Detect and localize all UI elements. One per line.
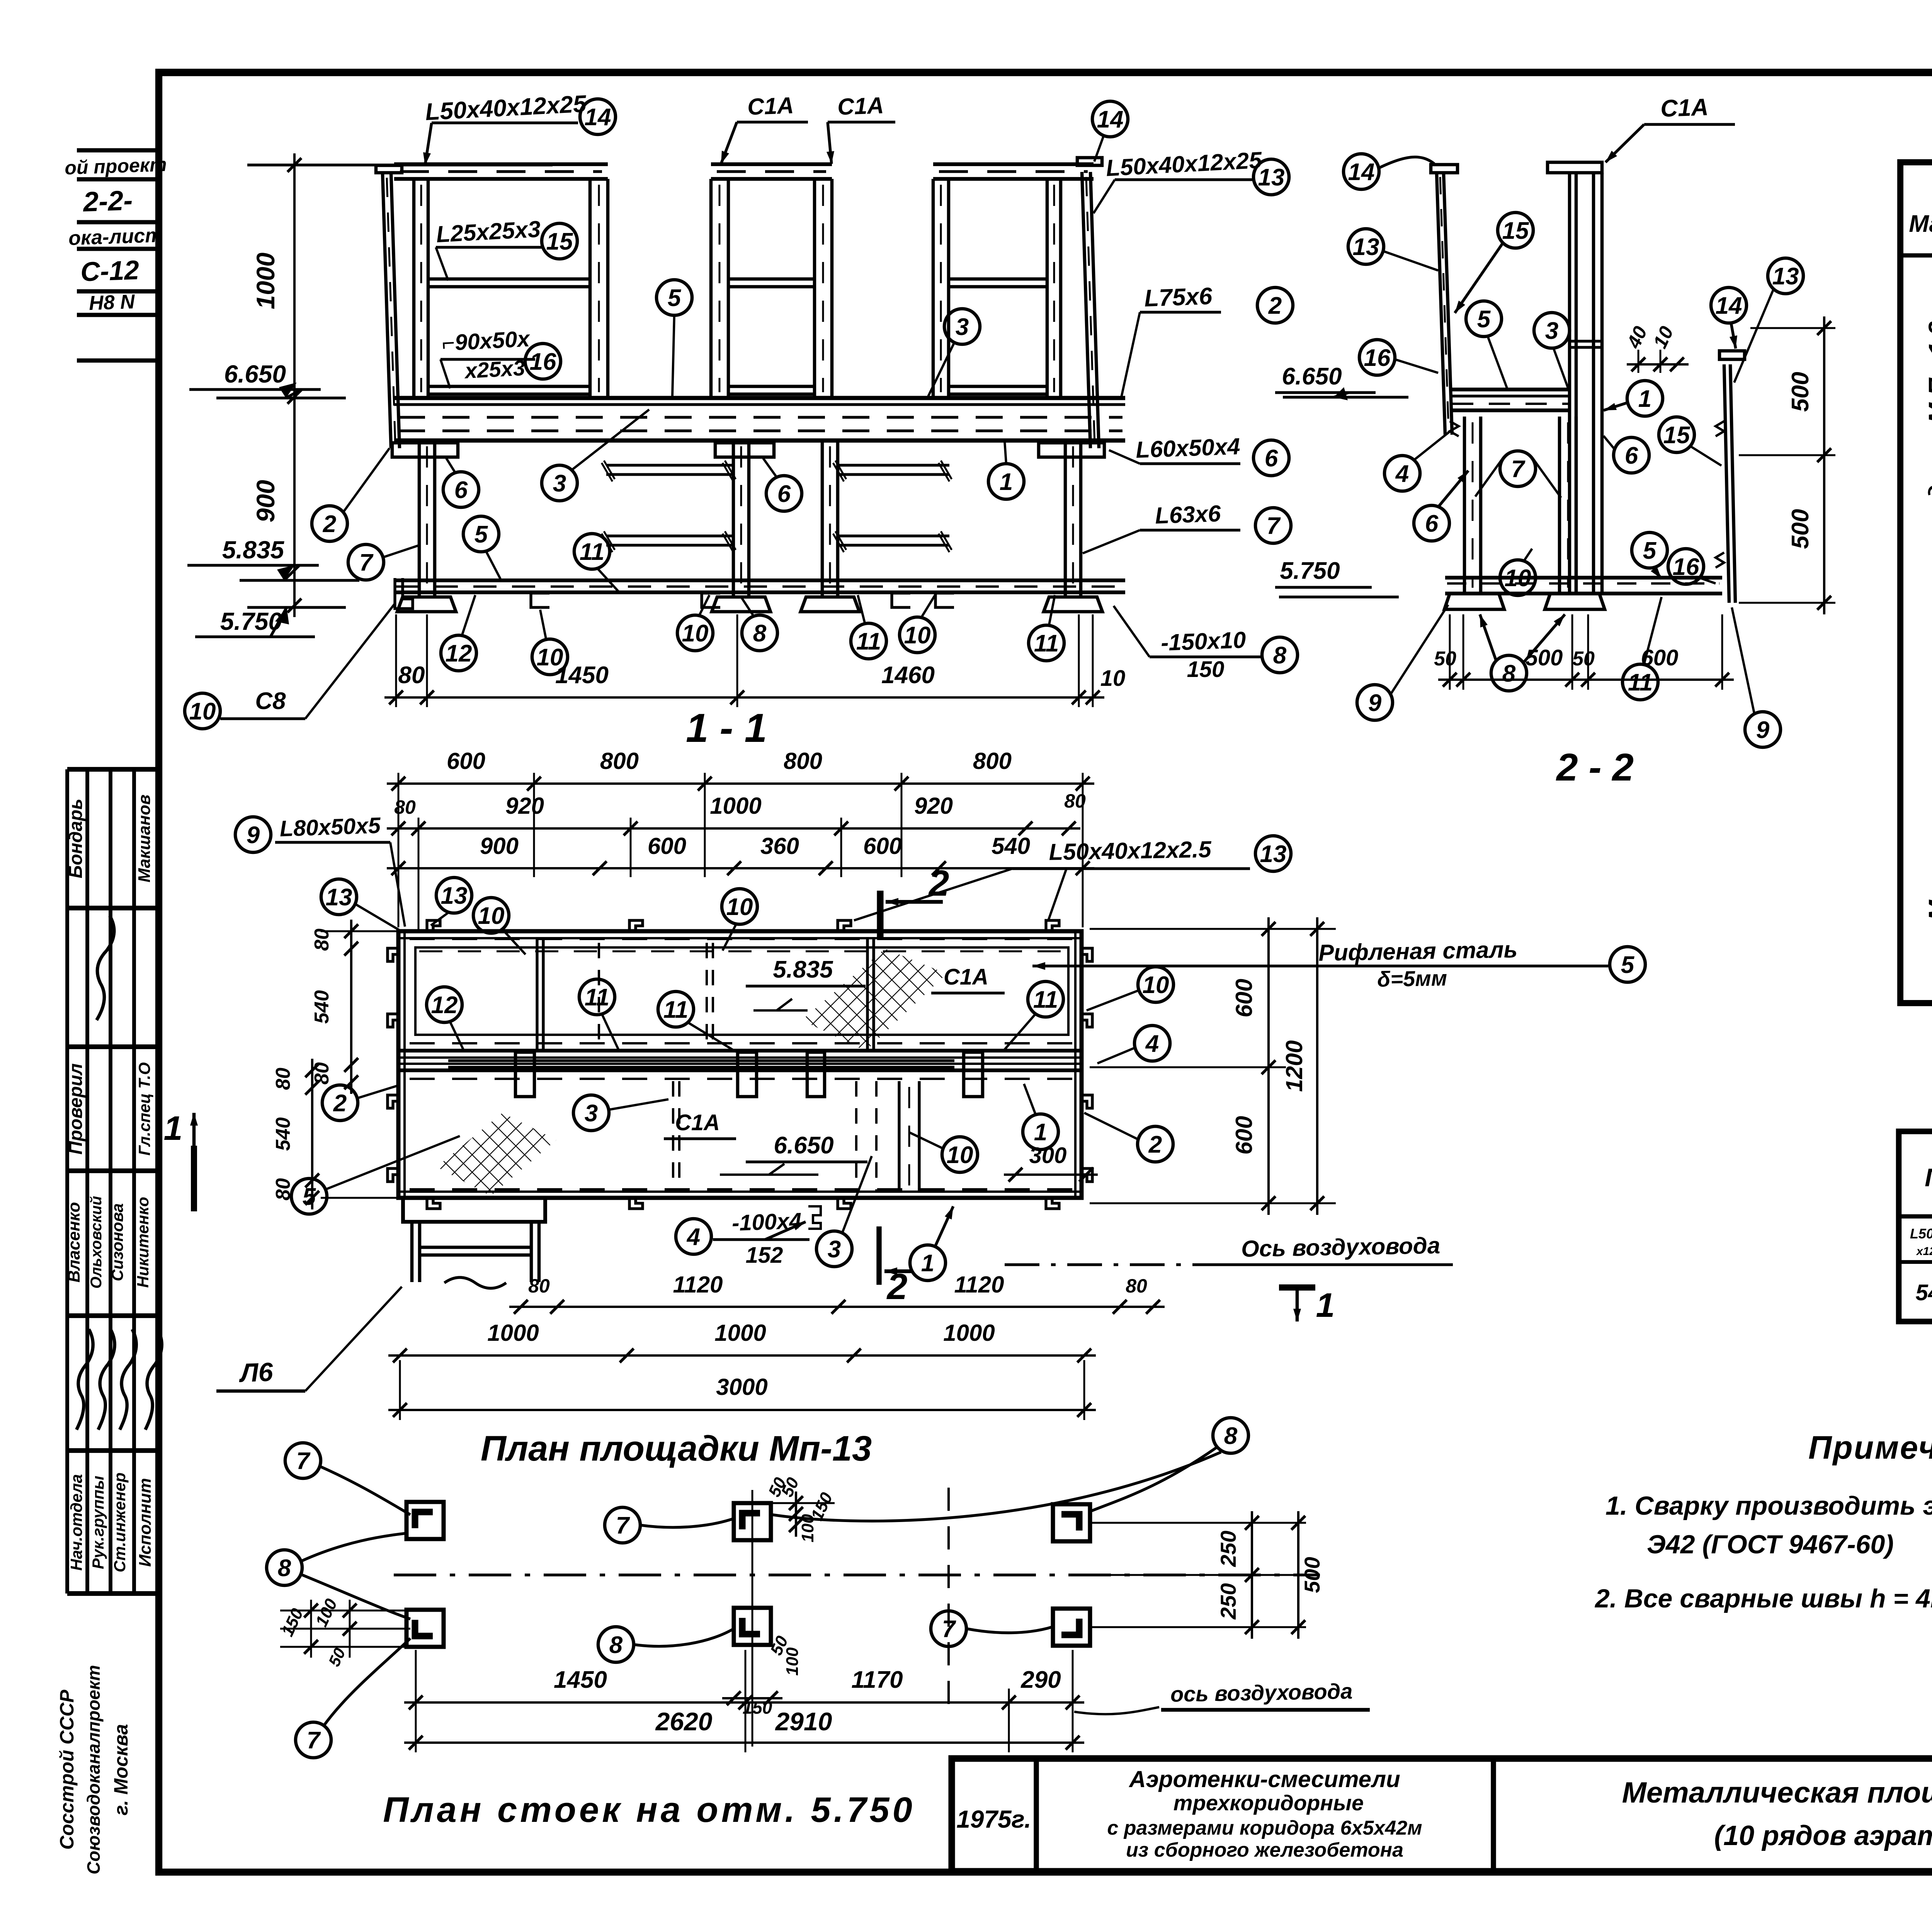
callout 6 mid (766, 476, 802, 511)
left margin signature stamp (65, 769, 69, 1594)
svg-text:3: 3 (553, 470, 566, 497)
svg-text:(10 рядов аэраторов): (10 рядов аэраторов) (1714, 1820, 1932, 1851)
svg-text:С1А: С1А (837, 92, 884, 120)
handrail post right (1046, 179, 1049, 398)
svg-text:540: 540 (992, 833, 1030, 859)
svg-text:290: 290 (1020, 1667, 1061, 1693)
svg-text:13: 13 (441, 883, 468, 909)
svg-text:3: 3 (1545, 318, 1558, 344)
tall angle 13 right (1724, 364, 1729, 603)
svg-text:1000: 1000 (710, 793, 761, 819)
svg-text:6: 6 (1425, 510, 1439, 537)
svg-text:5: 5 (1643, 537, 1657, 564)
callouts section 2-2 (1344, 154, 1379, 189)
svg-text:9: 9 (247, 822, 260, 849)
dashed plate lines (410, 1042, 1074, 1044)
callout 7 left (348, 544, 384, 580)
svg-text:50: 50 (1572, 648, 1595, 670)
svg-text:6: 6 (1265, 445, 1278, 472)
svg-text:L75х6: L75х6 (1144, 283, 1213, 312)
lower rail (428, 385, 590, 388)
svg-text:54.0: 54.0 (1916, 1280, 1932, 1305)
svg-text:80: 80 (398, 662, 425, 689)
svg-text:2 - 2: 2 - 2 (1556, 746, 1634, 789)
svg-text:Бондарь: Бондарь (66, 799, 86, 878)
svg-text:540: 540 (311, 990, 333, 1024)
svg-text:800: 800 (784, 748, 822, 774)
svg-text:С8: С8 (255, 688, 286, 714)
plan inner callouts (427, 987, 462, 1022)
svg-text:12: 12 (431, 992, 458, 1019)
svg-text:4: 4 (1395, 461, 1409, 487)
svg-text:1000: 1000 (714, 1320, 766, 1346)
svg-text:15: 15 (1663, 422, 1690, 449)
svg-text:900: 900 (251, 480, 280, 522)
svg-text:L50х40х12х2.5: L50х40х12х2.5 (1049, 836, 1212, 865)
callout 1 bottom (910, 1245, 946, 1281)
svg-text:5.750: 5.750 (1280, 558, 1340, 584)
lower header/data rows (1899, 1260, 1932, 1264)
svg-text:2910: 2910 (775, 1707, 832, 1736)
svg-text:Нач.отдела: Нач.отдела (67, 1474, 85, 1571)
svg-text:10: 10 (189, 698, 216, 725)
mid rail L25x25x3 (428, 277, 590, 281)
callout 6 left (443, 472, 479, 507)
callouts bottom plan (285, 1443, 321, 1478)
svg-text:План стоек на отм. 5.750: План стоек на отм. 5.750 (383, 1790, 915, 1830)
svg-text:Никитенко: Никитенко (134, 1197, 152, 1287)
section cut 1 (left) (191, 1146, 197, 1211)
svg-text:1: 1 (1638, 386, 1651, 412)
svg-text:7: 7 (296, 1448, 311, 1475)
svg-text:7: 7 (1511, 456, 1526, 483)
svg-text:8: 8 (1273, 642, 1287, 669)
svg-text:1975г.: 1975г. (956, 1805, 1031, 1833)
callout 10 b (677, 615, 713, 651)
svg-text:11: 11 (1033, 986, 1058, 1013)
svg-text:6: 6 (454, 477, 468, 503)
svg-text:3: 3 (585, 1100, 598, 1127)
svg-text:6: 6 (1625, 442, 1638, 469)
svg-text:Рифленая сталь: Рифленая сталь (1318, 937, 1518, 966)
small dims near square 2 (795, 1492, 797, 1537)
svg-text:Э42 (ГОСТ 9467-60): Э42 (ГОСТ 9467-60) (1647, 1530, 1894, 1559)
bottom dims 2620 2910 (404, 1742, 1084, 1744)
callout 5 lower (463, 516, 499, 552)
svg-text:50: 50 (1434, 648, 1456, 670)
svg-text:14: 14 (1348, 159, 1375, 185)
handrail post left (412, 179, 416, 398)
lower post pair left (2-2) (1463, 417, 1466, 594)
bottom dims 1450/1170/290 (404, 1701, 1084, 1704)
scan scuff marks on top border (270, 70, 325, 75)
handrail post right (813, 179, 816, 398)
svg-text:8: 8 (1502, 660, 1516, 687)
svg-text:500: 500 (1526, 645, 1563, 670)
svg-text:80: 80 (272, 1068, 294, 1090)
svg-text:5: 5 (668, 285, 682, 311)
svg-text:L60х50х4: L60х50х4 (1135, 433, 1240, 463)
svg-text:500: 500 (1787, 372, 1814, 412)
svg-text:1000: 1000 (943, 1320, 995, 1346)
svg-text:2: 2 (1268, 293, 1282, 319)
cap angle 14 right (1077, 158, 1102, 165)
svg-text:13: 13 (326, 884, 352, 911)
svg-text:Ось воздуховода: Ось воздуховода (1241, 1233, 1440, 1262)
svg-text:δ=5мм: δ=5мм (1377, 966, 1447, 991)
ladder at plan bottom left (403, 1198, 545, 1222)
svg-text:10: 10 (682, 620, 709, 647)
svg-text:100: 100 (783, 1647, 802, 1676)
cross-hatched patch (top) (802, 949, 947, 1051)
svg-text:360: 360 (760, 833, 799, 859)
cap angle 14 (2-2 right) (1719, 351, 1745, 359)
callout 10 a (532, 639, 568, 675)
svg-text:2: 2 (323, 511, 336, 537)
svg-text:900: 900 (480, 833, 519, 859)
svg-text:12: 12 (446, 640, 472, 667)
label -100x4 152 callout 4 (676, 1219, 711, 1254)
svg-text:80: 80 (272, 1178, 294, 1201)
svg-text:5.835: 5.835 (773, 956, 833, 983)
bottom dimension row 80/1450/1460/10 (384, 696, 1104, 699)
plan vertical posts (bottom half) (855, 1081, 857, 1192)
section cut 1 (right) (1279, 1284, 1315, 1291)
callout 5 to hatch (291, 1179, 327, 1214)
svg-text:7: 7 (307, 1727, 321, 1754)
svg-text:13: 13 (1772, 263, 1799, 290)
brackets 6 (L60x50x4) under platform (392, 443, 458, 457)
callout 11 right (1029, 625, 1064, 661)
svg-text:1120: 1120 (673, 1272, 723, 1298)
weld teeth 16 on left angle (1450, 421, 1459, 436)
svg-text:Металлическая площадка МП-13.: Металлическая площадка МП-13. (1923, 301, 1932, 921)
svg-text:2: 2 (886, 1266, 908, 1307)
svg-text:10: 10 (1143, 972, 1169, 998)
svg-text:11: 11 (856, 628, 881, 655)
weld teeth 16 right angle (1716, 421, 1724, 436)
callout 14 right (1092, 101, 1128, 137)
svg-text:600: 600 (1231, 979, 1257, 1017)
svg-text:3: 3 (828, 1236, 841, 1263)
svg-text:6: 6 (777, 481, 791, 507)
svg-text:Марка: Марка (1909, 211, 1932, 237)
svg-text:5.835: 5.835 (222, 536, 285, 564)
svg-text:ось воздуховода: ось воздуховода (1170, 1679, 1352, 1706)
dashed floor plate outline (top half) (415, 947, 1068, 1035)
vertical dimension 1000 / 900 (293, 153, 296, 617)
svg-text:4: 4 (1145, 1031, 1159, 1057)
svg-text:3: 3 (956, 314, 969, 340)
left end angle clip (395, 578, 413, 609)
svg-text:9: 9 (1756, 717, 1770, 743)
lower posts 7 (L63x6) (418, 440, 421, 597)
svg-text:80: 80 (311, 1062, 333, 1085)
svg-text:1460: 1460 (881, 662, 935, 689)
svg-text:Н8 N: Н8 N (88, 291, 136, 315)
callout 11 mid (851, 623, 886, 659)
callout 2 left (312, 506, 347, 541)
svg-text:10: 10 (726, 894, 753, 920)
svg-text:Л6: Л6 (238, 1357, 274, 1388)
svg-text:1 - 1: 1 - 1 (686, 706, 767, 751)
svg-text:920: 920 (914, 793, 953, 819)
svg-text:16: 16 (1364, 345, 1391, 371)
clips 10 under bottom rail (531, 593, 549, 607)
post squares row 2 (406, 1610, 444, 1647)
svg-text:250: 250 (1216, 1583, 1240, 1619)
post squares row 1 (406, 1502, 444, 1539)
svg-text:600: 600 (1231, 1116, 1257, 1155)
svg-text:4: 4 (686, 1224, 700, 1250)
svg-text:11: 11 (580, 539, 604, 565)
axis line (394, 1573, 1320, 1576)
section cut 2 (top) (877, 891, 883, 939)
svg-text:15: 15 (1502, 218, 1529, 244)
platform beam (2-2) (1450, 388, 1570, 391)
handrail post left (932, 179, 935, 398)
svg-text:250: 250 (1216, 1531, 1240, 1567)
svg-text:Сосстрой СССР: Сосстрой СССР (56, 1689, 78, 1850)
svg-text:8: 8 (753, 620, 767, 647)
svg-text:3000: 3000 (716, 1374, 767, 1400)
svg-text:Прокат: Прокат (1925, 1163, 1932, 1192)
cap angle 14 left (376, 165, 402, 173)
callout 3 lower (542, 465, 577, 501)
svg-text:1: 1 (921, 1250, 934, 1277)
svg-text:5: 5 (1477, 306, 1491, 333)
tie rungs 11 (606, 464, 733, 466)
svg-text:7: 7 (616, 1512, 630, 1539)
base plates 8 (-150x10) (397, 597, 456, 612)
perimeter clips 13 on plan (427, 920, 440, 931)
handrail post left (709, 179, 713, 398)
svg-text:1: 1 (164, 1109, 183, 1147)
svg-text:150: 150 (1187, 657, 1225, 682)
callout 10 with label C8 (185, 693, 220, 729)
svg-text:Союзводоканалпроект: Союзводоканалпроект (83, 1665, 104, 1874)
svg-text:L50х40х: L50х40х (1910, 1226, 1932, 1242)
svg-text:600: 600 (447, 748, 485, 774)
svg-text:С-12: С-12 (80, 255, 139, 287)
svg-text:11: 11 (585, 984, 609, 1011)
bottom dims 50/500/50/600 (2-2) (1438, 679, 1734, 681)
base plates (2-2) (1444, 594, 1504, 609)
cap of channel post (1548, 162, 1602, 173)
svg-text:ой проект: ой проект (64, 153, 167, 179)
handrail post right (588, 179, 592, 398)
svg-text:5: 5 (1621, 952, 1635, 978)
svg-text:Проверил: Проверил (66, 1063, 86, 1155)
svg-text:10: 10 (1505, 565, 1531, 592)
dims below plan (509, 1306, 1165, 1308)
svg-text:2620: 2620 (655, 1707, 713, 1736)
svg-text:Рук.группы: Рук.группы (89, 1476, 107, 1569)
svg-text:6.650: 6.650 (1282, 363, 1342, 390)
svg-text:1: 1 (1000, 469, 1013, 495)
brackets row in middle band (738, 1052, 757, 1097)
lower rail (949, 385, 1047, 388)
svg-text:7: 7 (1267, 513, 1281, 539)
svg-text:80: 80 (528, 1275, 550, 1297)
svg-text:С1А: С1А (944, 964, 988, 990)
plan vertical posts (top half) (536, 938, 538, 1051)
callout 3 bottom (816, 1231, 852, 1267)
svg-text:6.650: 6.650 (774, 1132, 833, 1159)
svg-text:13: 13 (1260, 841, 1287, 867)
callout 8 (742, 615, 777, 651)
cap angle 14 (2-2 left) (1431, 165, 1458, 173)
svg-text:1170: 1170 (851, 1667, 903, 1693)
svg-text:11: 11 (1034, 630, 1059, 657)
svg-text:6.650: 6.650 (224, 360, 286, 388)
svg-text:13: 13 (1258, 164, 1285, 191)
svg-text:8: 8 (1224, 1423, 1238, 1449)
svg-text:800: 800 (600, 748, 639, 774)
right dims of plan 600/600/1200 (1267, 917, 1270, 1215)
svg-text:14: 14 (1097, 106, 1124, 133)
svg-text:9: 9 (1368, 690, 1382, 716)
svg-text:г. Москва: г. Москва (110, 1724, 132, 1816)
svg-text:-100х4: -100х4 (731, 1208, 802, 1236)
svg-text:1: 1 (1034, 1119, 1047, 1146)
svg-text:5: 5 (474, 521, 488, 548)
section cut 2 (bottom) (876, 1226, 881, 1285)
tilted angle post 13 left (383, 173, 391, 448)
svg-text:С1А: С1А (1660, 94, 1709, 122)
svg-text:L63х6: L63х6 (1155, 500, 1221, 529)
handrail bay top beam (394, 162, 608, 166)
svg-text:500: 500 (1787, 509, 1814, 549)
handrail bay top beam (711, 162, 832, 166)
svg-text:С1А: С1А (675, 1110, 720, 1135)
svg-text:L80х50х5: L80х50х5 (279, 813, 381, 841)
svg-text:7: 7 (359, 549, 374, 576)
callout 3 top (944, 309, 980, 344)
callout 11 left (574, 534, 610, 569)
svg-text:80: 80 (1126, 1275, 1147, 1297)
svg-text:-150х10: -150х10 (1160, 627, 1246, 656)
svg-text:2: 2 (1148, 1131, 1162, 1158)
svg-text:1200: 1200 (1281, 1040, 1307, 1092)
svg-text:16: 16 (1673, 554, 1699, 580)
svg-text:1000: 1000 (251, 252, 280, 309)
svg-text:Сизонова: Сизонова (108, 1203, 126, 1281)
callout 5 top (656, 280, 692, 315)
svg-text:С1А: С1А (747, 92, 794, 120)
svg-text:с размерами коридора 6х5х42м: с размерами коридора 6х5х42м (1107, 1817, 1422, 1839)
tall angle 13 left (1437, 173, 1445, 435)
svg-text:7: 7 (942, 1616, 956, 1643)
channel post C1A (2-2) (1568, 173, 1571, 594)
svg-text:L25х25х3: L25х25х3 (435, 216, 541, 247)
svg-text:⌐90х50х: ⌐90х50х (441, 326, 531, 356)
svg-text:600: 600 (648, 833, 686, 859)
svg-text:10: 10 (947, 1142, 973, 1168)
svg-text:1450: 1450 (554, 1667, 607, 1693)
axis of air duct label (plan) (1005, 1263, 1198, 1266)
svg-text:13: 13 (1353, 234, 1379, 260)
svg-text:920: 920 (505, 793, 544, 819)
svg-text:из сборного железобетона: из сборного железобетона (1126, 1839, 1403, 1861)
lower rail (728, 385, 815, 388)
svg-text:800: 800 (973, 748, 1012, 774)
svg-text:1. Сварку производить электр: 1. Сварку производить электродами . (1605, 1491, 1932, 1520)
plan middle beam band (398, 1049, 1082, 1053)
svg-text:14: 14 (585, 104, 611, 131)
dim 40/10 top (2-2) (1627, 363, 1689, 366)
cross-hatched patch (bottom) (437, 1113, 556, 1196)
tilted angle post 13 right (1082, 172, 1090, 448)
svg-text:Примечания:: Примечания: (1808, 1429, 1932, 1466)
svg-text:10: 10 (904, 622, 931, 649)
column center lines (752, 1490, 753, 1747)
svg-text:152: 152 (746, 1243, 783, 1268)
left dims of plan (350, 920, 352, 1094)
svg-text:Гл.спец Т.О: Гл.спец Т.О (135, 1062, 153, 1156)
svg-text:Ольховский: Ольховский (88, 1196, 105, 1289)
lower post pair right (2-2) (1558, 417, 1561, 594)
svg-text:15: 15 (546, 228, 573, 255)
left margin stamp (upper), cut-off text rows (77, 148, 159, 153)
right dims 250/250/500 (1251, 1511, 1253, 1639)
svg-text:План площадки Мп-13: План площадки Мп-13 (481, 1429, 872, 1468)
svg-text:2. Все сварные швы h = 4мм: 2. Все сварные швы h = 4мм. (1594, 1584, 1932, 1613)
svg-text:1120: 1120 (954, 1272, 1004, 1298)
svg-text:10: 10 (1100, 666, 1126, 691)
svg-text:11: 11 (663, 997, 688, 1023)
svg-text:Ст.инженер: Ст.инженер (111, 1473, 129, 1572)
mid rail L25x25x3 (949, 277, 1047, 281)
callout 10 c (900, 617, 935, 653)
platform floor beam 6.650 (394, 396, 1125, 400)
svg-text:14: 14 (1716, 293, 1742, 319)
svg-text:8: 8 (278, 1555, 291, 1582)
svg-text:Исполнит: Исполнит (136, 1478, 155, 1567)
callout 12 (441, 635, 476, 671)
svg-text:х12х2.5: х12х2.5 (1916, 1245, 1932, 1258)
mid rail L25x25x3 (728, 277, 815, 281)
svg-text:11: 11 (1628, 669, 1653, 696)
svg-text:1: 1 (1316, 1286, 1335, 1324)
svg-text:трехкоридорные: трехкоридорные (1173, 1791, 1364, 1815)
handrail bay top beam (933, 162, 1094, 166)
plan callouts top (321, 879, 357, 915)
plan outer boundary (398, 931, 1082, 1198)
dimension rows above plan (387, 782, 1094, 785)
svg-text:Металлическая площадка МП-13: Металлическая площадка МП-13 (1622, 1776, 1932, 1809)
svg-text:10: 10 (537, 644, 563, 671)
bottom strip 5.750 (2-2) (1445, 576, 1722, 580)
svg-text:Макшанов: Макшанов (135, 794, 154, 883)
svg-text:8: 8 (609, 1632, 623, 1658)
svg-text:16: 16 (530, 349, 556, 375)
splice joint on channel (1570, 340, 1602, 342)
bottom rail 5.750 (394, 578, 1125, 582)
svg-text:1000: 1000 (487, 1320, 539, 1346)
vertical dim 500/500 (2-2) (1823, 316, 1825, 614)
svg-text:10: 10 (478, 903, 505, 929)
svg-text:2: 2 (333, 1090, 347, 1117)
svg-text:600: 600 (863, 833, 902, 859)
svg-text:540: 540 (272, 1117, 294, 1151)
svg-text:2-2-: 2-2- (82, 185, 133, 218)
svg-text:ока-лист: ока-лист (68, 224, 163, 250)
svg-text:Аэротенки-смесители: Аэротенки-смесители (1128, 1766, 1400, 1792)
callout 1 (988, 464, 1024, 499)
svg-text:Власенко: Власенко (65, 1202, 83, 1282)
